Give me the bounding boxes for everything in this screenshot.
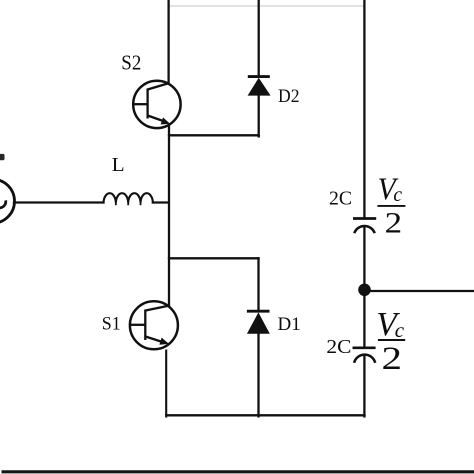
svg-text:c: c (393, 185, 402, 206)
svg-text:S2: S2 (121, 51, 141, 75)
svg-text:S1: S1 (102, 315, 121, 335)
svg-text:D2: D2 (278, 86, 300, 107)
svg-text:c: c (395, 318, 405, 342)
svg-text:2C: 2C (326, 336, 351, 358)
svg-text:D1: D1 (278, 314, 301, 335)
svg-text:2C: 2C (329, 188, 352, 210)
svg-text:2: 2 (385, 206, 403, 239)
svg-text:2: 2 (382, 341, 403, 377)
svg-text:L: L (112, 155, 125, 176)
